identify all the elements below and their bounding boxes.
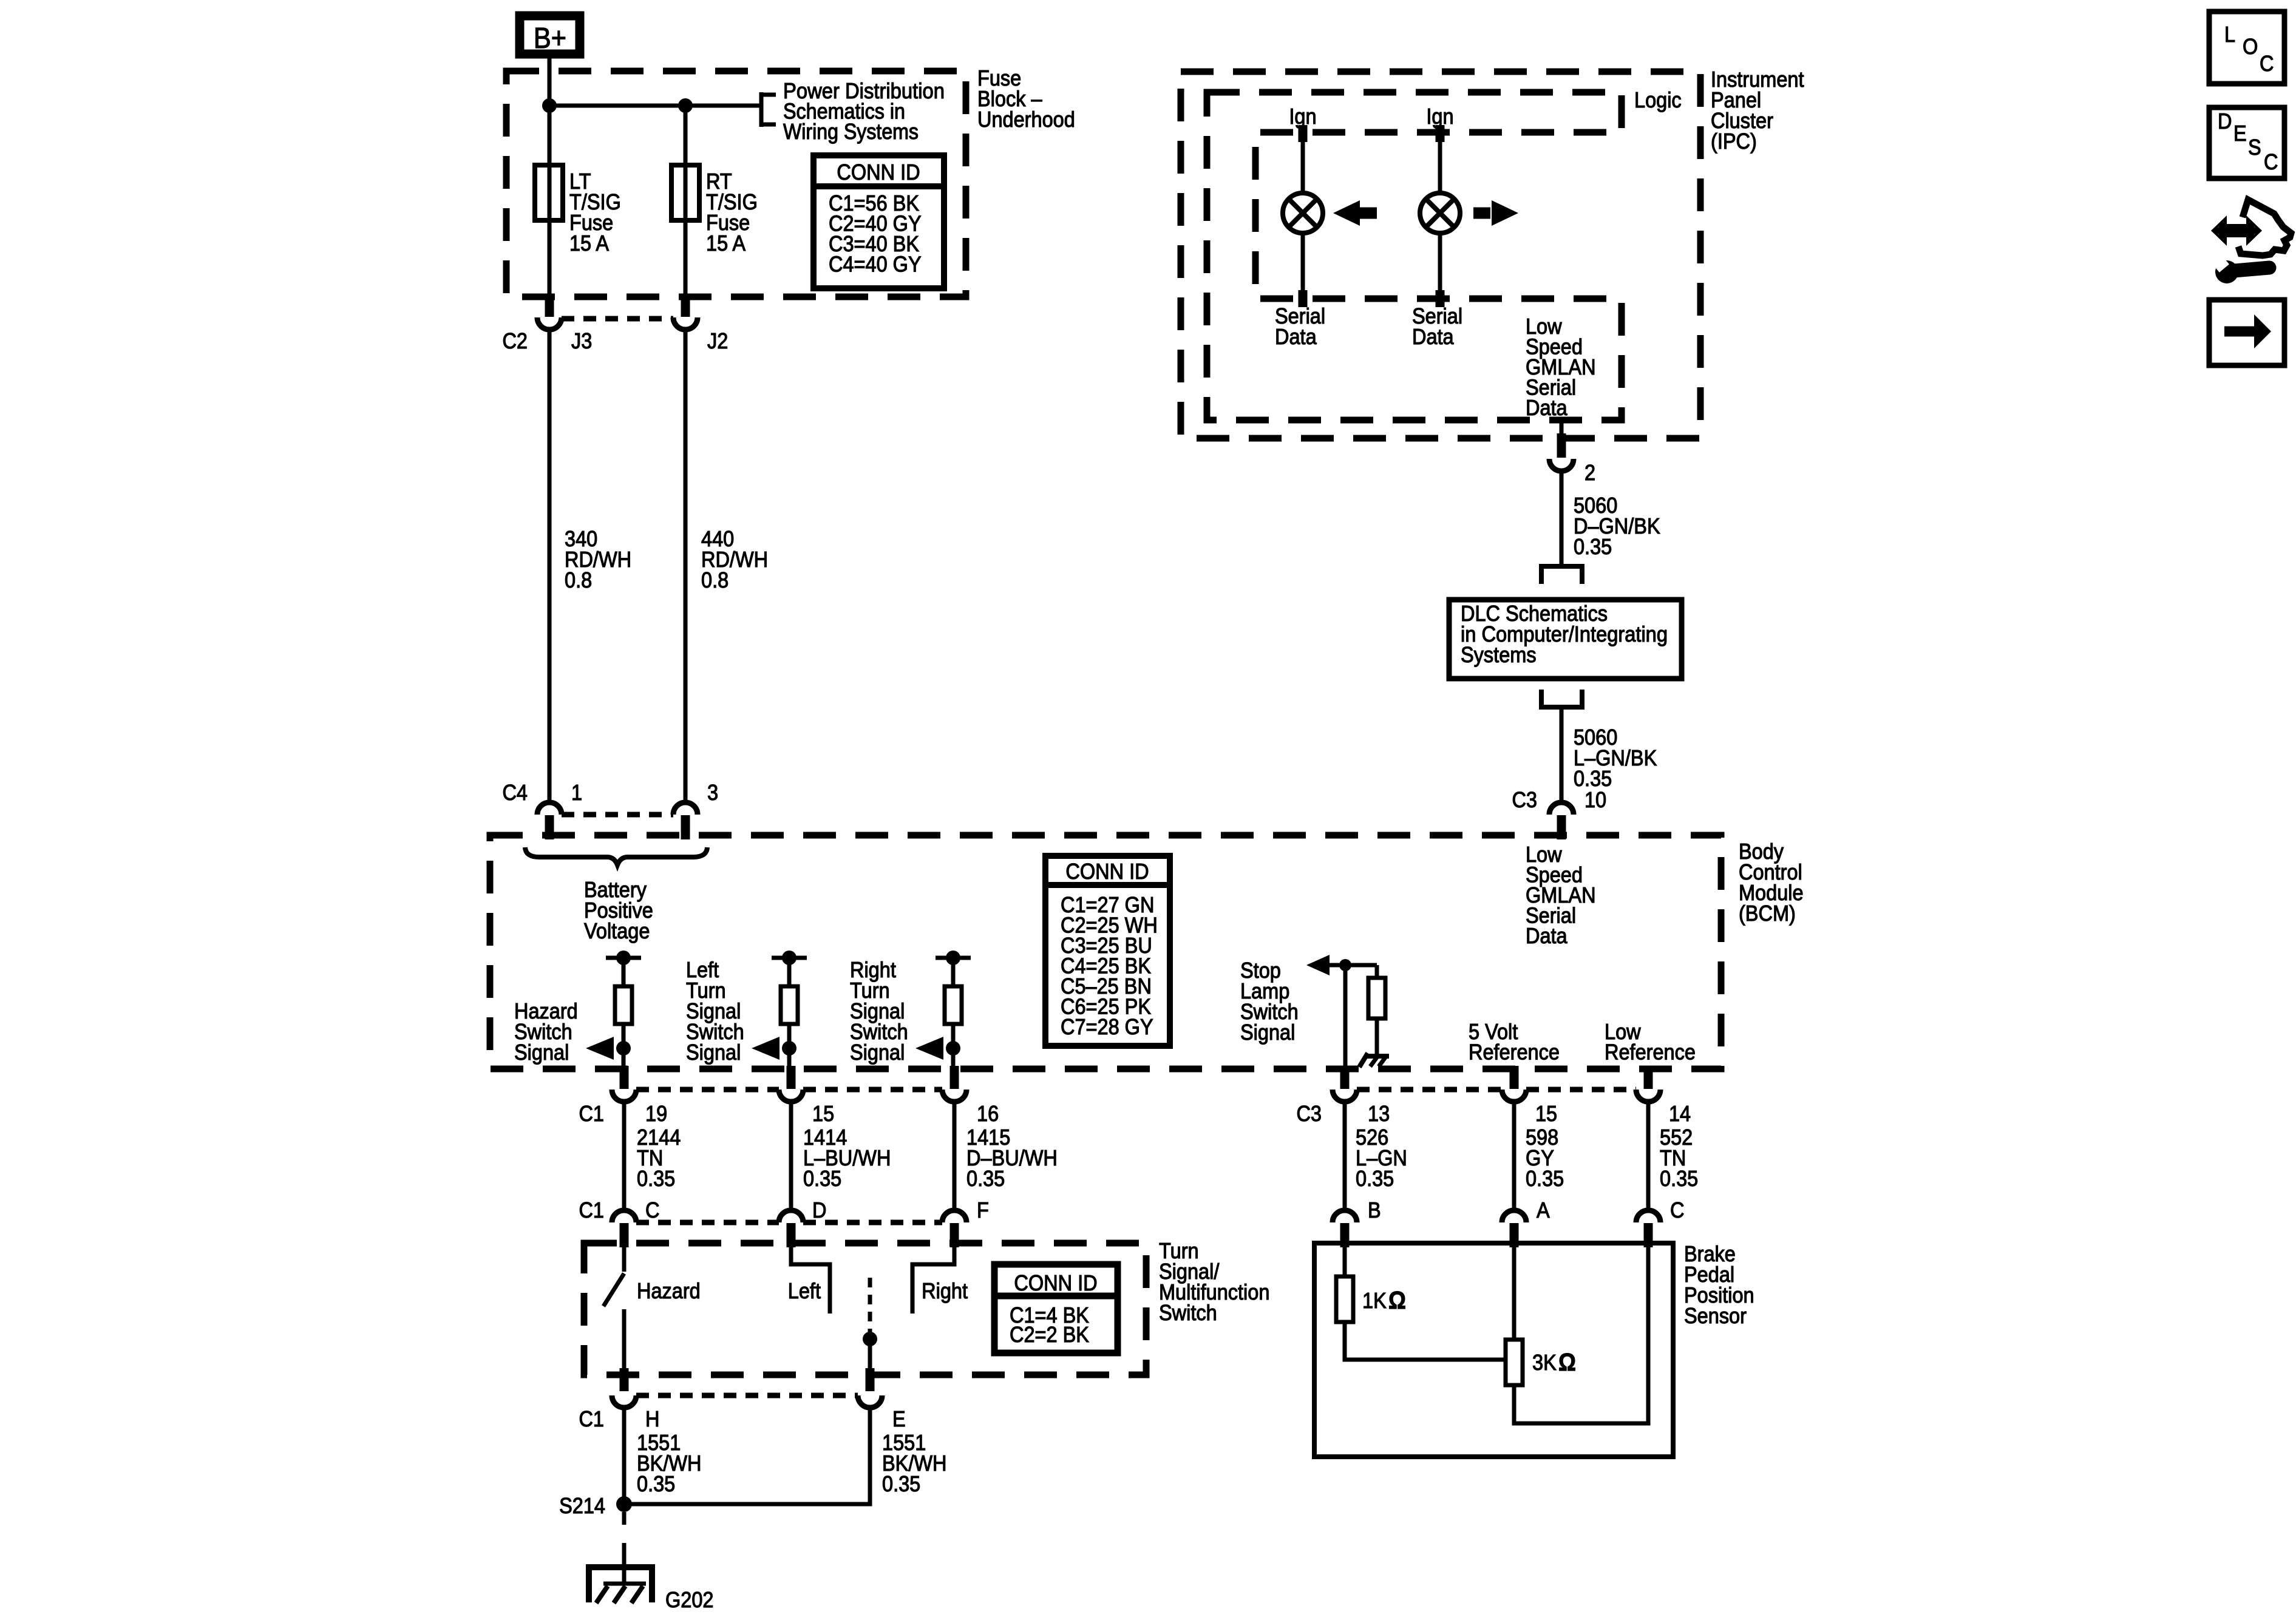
svg-text:B+: B+ [534, 21, 566, 55]
connector C1 pin F [942, 1210, 966, 1222]
BCM right turn resistor and arrow [936, 956, 971, 960]
svg-text:2: 2 [1584, 461, 1595, 485]
BCM left turn resistor and arrow [772, 956, 807, 960]
BCM internal ground hatch [1365, 1054, 1389, 1059]
brace battery positive voltage [525, 847, 707, 865]
svg-text:Left: Left [788, 1279, 821, 1303]
svg-text:C3: C3 [1512, 788, 1537, 812]
svg-text:C: C [645, 1198, 659, 1222]
connector C3 pin 15 [1502, 1090, 1526, 1102]
left arrow symbol [1333, 200, 1360, 226]
svg-text:0.35: 0.35 [803, 1167, 841, 1191]
svg-text:C4: C4 [502, 781, 528, 805]
svg-text:0.35: 0.35 [1356, 1167, 1394, 1191]
svg-text:A: A [1537, 1198, 1550, 1222]
wire GMLAN out of logic box [1560, 420, 1564, 433]
svg-text:Data: Data [1526, 396, 1567, 420]
svg-text:Reference: Reference [1605, 1040, 1696, 1065]
svg-text:Voltage: Voltage [584, 919, 650, 943]
svg-text:0.8: 0.8 [701, 568, 729, 592]
pin tick left lamp top [1299, 125, 1308, 142]
svg-text:Right: Right [922, 1279, 968, 1303]
conn id table BCM [1045, 856, 1170, 1046]
sensor wire A to 3K [1512, 1246, 1517, 1340]
svg-text:C: C [1670, 1198, 1684, 1222]
svg-text:1: 1 [571, 781, 582, 805]
icon hand double arrow [2211, 215, 2262, 246]
svg-text:0.35: 0.35 [637, 1167, 675, 1191]
connector C1 pin H [612, 1395, 636, 1408]
svg-text:C4=40 GY: C4=40 GY [829, 253, 922, 277]
wire 2144 TN [622, 1103, 627, 1209]
svg-text:E: E [2233, 121, 2247, 146]
BCM stop lamp resistor [1368, 978, 1385, 1019]
bracket out of DLC note [1541, 690, 1582, 707]
svg-text:C2=2 BK: C2=2 BK [1010, 1323, 1089, 1347]
svg-text:C: C [2264, 150, 2278, 174]
svg-text:D: D [812, 1198, 826, 1222]
turn indicator lamp right [1420, 193, 1460, 233]
svg-text:S: S [2248, 135, 2261, 160]
pin tick 14 at BCM bottom [1644, 1066, 1653, 1089]
svg-text:13: 13 [1368, 1102, 1390, 1126]
connector C4 pin 3 [673, 802, 698, 815]
connector C2 pin J3 [537, 317, 562, 330]
stop lamp signal wires [1326, 963, 1377, 968]
svg-text:(BCM): (BCM) [1739, 901, 1796, 926]
svg-text:15 A: 15 A [569, 231, 609, 256]
wire 552 TN [1646, 1103, 1651, 1209]
svg-text:15: 15 [812, 1102, 834, 1126]
brake pedal position sensor box [1314, 1243, 1673, 1457]
pin tick 3 at BCM edge [681, 815, 690, 839]
svg-text:0.35: 0.35 [882, 1472, 920, 1496]
wire S214 to ground [622, 1512, 627, 1525]
wire ign to left lamp [1301, 132, 1305, 194]
connector pin A [1502, 1210, 1526, 1222]
connector pin B [1333, 1210, 1357, 1222]
pin tick J2 at fuse block edge [681, 294, 690, 317]
svg-text:E: E [892, 1407, 906, 1431]
pin tick 1 at BCM edge [545, 815, 554, 839]
svg-text:Signal: Signal [514, 1040, 569, 1065]
connector body dotted line C4 [562, 812, 673, 818]
connector C3 pin 10 [1549, 802, 1574, 815]
svg-text:Hazard: Hazard [637, 1279, 701, 1303]
pin tick 15 at BCM bottom [787, 1066, 796, 1089]
svg-text:Data: Data [1412, 325, 1454, 349]
junction J2 on bus [678, 98, 693, 113]
wire LT fuse to connector [548, 220, 552, 294]
power symbol B+ [520, 16, 580, 54]
svg-text:0.35: 0.35 [966, 1167, 1005, 1191]
left turn contact wire [791, 1247, 830, 1314]
pin tick IPC bottom [1557, 433, 1566, 458]
wire RT fuse to connector [684, 220, 688, 294]
wire 598 GY [1512, 1103, 1517, 1209]
wire right lamp to serial data [1438, 232, 1442, 299]
pin tick F at switch edge [950, 1223, 959, 1247]
svg-text:14: 14 [1669, 1102, 1691, 1126]
switch common dashed link [868, 1278, 872, 1332]
connector C1 pin C [612, 1210, 636, 1222]
wire 5060 L-GN/BK [1560, 707, 1564, 801]
wire bus to LT fuse [548, 106, 552, 165]
pin tick 10 at BCM edge [1557, 815, 1566, 839]
wire switch common [868, 1339, 872, 1375]
svg-text:J2: J2 [707, 329, 728, 353]
wire 440 RD/WH [684, 331, 688, 801]
svg-text:1K: 1K [1362, 1289, 1387, 1313]
turn indicator lamp left [1283, 193, 1323, 233]
svg-text:Data: Data [1526, 924, 1567, 948]
svg-text:C7=28 GY: C7=28 GY [1061, 1015, 1153, 1039]
svg-text:C1: C1 [579, 1407, 604, 1431]
svg-text:Data: Data [1275, 325, 1317, 349]
wire 5060 D-GN/BK [1560, 472, 1564, 564]
svg-text:15 A: 15 A [706, 231, 746, 256]
pin tick 15 at BCM bottom right [1510, 1066, 1519, 1089]
svg-text:Sensor: Sensor [1684, 1304, 1747, 1328]
connector body dotted line C1 top [636, 1087, 779, 1093]
svg-text:0.35: 0.35 [1526, 1167, 1564, 1191]
connector C3 pin 14 [1636, 1090, 1660, 1102]
wire 1415 D-BU/WH [953, 1103, 957, 1209]
svg-text:Underhood: Underhood [977, 107, 1075, 132]
pin tick 13 at BCM bottom [1340, 1066, 1350, 1089]
svg-text:D: D [2218, 109, 2232, 134]
svg-text:(IPC): (IPC) [1711, 129, 1757, 154]
BCM hazard signal resistor and arrow [606, 956, 641, 960]
svg-text:Systems: Systems [1461, 643, 1537, 667]
sensor wire B to 1K [1343, 1246, 1347, 1276]
svg-text:Reference: Reference [1469, 1040, 1560, 1065]
svg-text:Wiring Systems: Wiring Systems [783, 120, 919, 144]
instrument panel cluster dashed box [1181, 72, 1700, 438]
connector C1 pin E [858, 1395, 882, 1408]
svg-text:J3: J3 [571, 329, 592, 353]
connector C1 pin 15 [779, 1090, 803, 1102]
svg-text:Ω: Ω [1558, 1349, 1576, 1376]
sensor wire 3K to C [1514, 1246, 1648, 1423]
wire ign to right lamp [1438, 132, 1442, 194]
pin tick left lamp bottom [1299, 290, 1308, 307]
switch common junction [863, 1332, 877, 1346]
svg-text:H: H [645, 1407, 659, 1431]
wire 1414 L-BU/WH [789, 1103, 793, 1209]
pin tick right lamp top [1436, 125, 1445, 142]
pin tick H at switch bottom [620, 1368, 629, 1391]
svg-text:C2: C2 [502, 329, 528, 353]
right turn contact wire [912, 1247, 954, 1314]
svg-text:Ω: Ω [1388, 1287, 1406, 1314]
svg-text:CONN ID: CONN ID [1065, 859, 1149, 884]
svg-text:Signal: Signal [686, 1040, 741, 1065]
junction J1 on bus [542, 98, 557, 113]
wire 340 RD/WH [548, 331, 552, 801]
svg-text:15: 15 [1535, 1102, 1557, 1126]
icon hand outline [2238, 200, 2291, 256]
fuse RT T/SIG 15A [684, 165, 688, 220]
svg-text:C1: C1 [579, 1102, 604, 1126]
pin tick A at sensor edge [1510, 1223, 1519, 1247]
fuse LT T/SIG 15A [548, 165, 552, 220]
connector body dotted line C1 bottom [636, 1220, 779, 1225]
connector C1 pin 16 [942, 1090, 966, 1102]
svg-text:B: B [1368, 1198, 1381, 1222]
connector C3 pin 13 [1333, 1090, 1357, 1102]
pin tick B at sensor edge [1340, 1223, 1350, 1247]
connector C1 pin 19 [612, 1090, 636, 1102]
ground G202 [586, 1564, 655, 1570]
pin tick D at switch edge [787, 1223, 796, 1247]
bracket to Power Distribution note [759, 92, 764, 127]
svg-text:C3: C3 [1296, 1102, 1322, 1126]
connector body dotted line C1 switch [636, 1393, 858, 1398]
svg-text:0.8: 0.8 [565, 568, 592, 592]
svg-text:10: 10 [1584, 788, 1606, 812]
pin tick E at switch bottom [866, 1368, 875, 1391]
wire 1551 BK/WH left [622, 1409, 627, 1504]
connector pin C [1636, 1210, 1660, 1222]
DLC schematics box [1449, 600, 1682, 679]
pin tick C at sensor edge [1644, 1223, 1653, 1247]
svg-text:CONN ID: CONN ID [1014, 1271, 1097, 1295]
connector C4 pin 1 [537, 802, 562, 815]
svg-text:3K: 3K [1532, 1351, 1557, 1375]
wire B+ to bus [548, 58, 552, 107]
svg-text:16: 16 [977, 1102, 999, 1126]
connector C1 pin D [779, 1210, 803, 1222]
svg-text:0.35: 0.35 [1660, 1167, 1698, 1191]
fuse block - underhood dashed box [506, 71, 966, 297]
IPC logic dashed boundary (notched) [1207, 92, 1622, 420]
svg-text:C: C [2260, 52, 2274, 76]
hazard switch [622, 1247, 627, 1272]
pin tick 16 at BCM bottom [950, 1066, 959, 1089]
svg-text:3: 3 [707, 781, 718, 805]
connector pin 2 of IPC [1549, 459, 1574, 471]
svg-text:Logic: Logic [1634, 88, 1682, 112]
svg-text:Switch: Switch [1159, 1301, 1217, 1325]
connector body dotted line C3 [1357, 1087, 1502, 1093]
svg-text:G202: G202 [665, 1588, 714, 1612]
right arrow symbol [1473, 208, 1490, 219]
resistor 1K [1336, 1276, 1353, 1322]
svg-text:Signal: Signal [1240, 1020, 1295, 1045]
wire 1551 BK/WH right [624, 1409, 870, 1504]
wire bus to RT fuse [684, 106, 688, 165]
bracket into DLC note [1541, 566, 1582, 584]
resistor 3K [1506, 1340, 1523, 1385]
connector body dotted line C2 [562, 316, 673, 322]
svg-text:L: L [2224, 22, 2235, 47]
connector C2 pin J2 [673, 317, 698, 330]
pin tick J3 at fuse block edge [545, 294, 554, 317]
pin tick right lamp bottom [1436, 290, 1445, 307]
body control module dashed box [490, 835, 1721, 1069]
wire bus [549, 104, 761, 108]
svg-text:CONN ID: CONN ID [837, 160, 920, 185]
svg-text:0.35: 0.35 [1574, 535, 1612, 559]
conn id table fuse block [813, 155, 944, 288]
svg-text:O: O [2243, 35, 2258, 59]
turn signal multifunction switch dashed box [584, 1243, 1146, 1375]
icon LOC box [2209, 12, 2284, 84]
stop lamp arrow [1306, 955, 1330, 975]
wire left lamp to serial data [1301, 232, 1305, 299]
icon wrench [2215, 260, 2238, 283]
splice S214 [616, 1496, 632, 1512]
conn id table switch [994, 1264, 1118, 1353]
svg-text:Signal: Signal [850, 1040, 905, 1065]
svg-text:0.35: 0.35 [637, 1472, 675, 1496]
svg-text:19: 19 [645, 1102, 667, 1126]
svg-text:F: F [977, 1198, 989, 1222]
pin tick 19 at BCM bottom [620, 1066, 629, 1089]
sensor wire 1K to 3K wiper [1345, 1322, 1506, 1360]
wire 526 L-GN [1343, 1103, 1347, 1209]
svg-text:S214: S214 [559, 1494, 605, 1518]
icon DESC box [2209, 107, 2284, 178]
svg-text:C1: C1 [579, 1198, 604, 1222]
icon arrow box [2209, 300, 2284, 365]
pin tick C at switch edge [620, 1223, 629, 1247]
